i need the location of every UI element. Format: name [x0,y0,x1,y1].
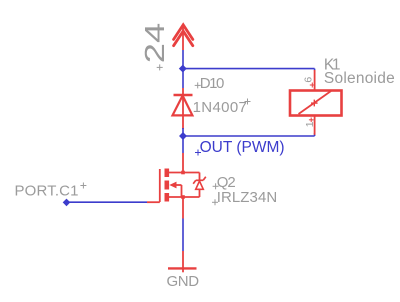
svg-text:GND: GND [167,273,200,290]
svg-text:PORT.C1: PORT.C1 [15,183,79,200]
svg-text:D10: D10 [200,75,225,92]
svg-text:1N4007: 1N4007 [193,99,247,116]
svg-text:Solenoide: Solenoide [324,70,395,87]
svg-text:24: 24 [139,23,170,64]
svg-text:6: 6 [302,77,314,83]
svg-text:OUT (PWM): OUT (PWM) [200,139,285,156]
svg-text:IRLZ34N: IRLZ34N [217,189,278,206]
